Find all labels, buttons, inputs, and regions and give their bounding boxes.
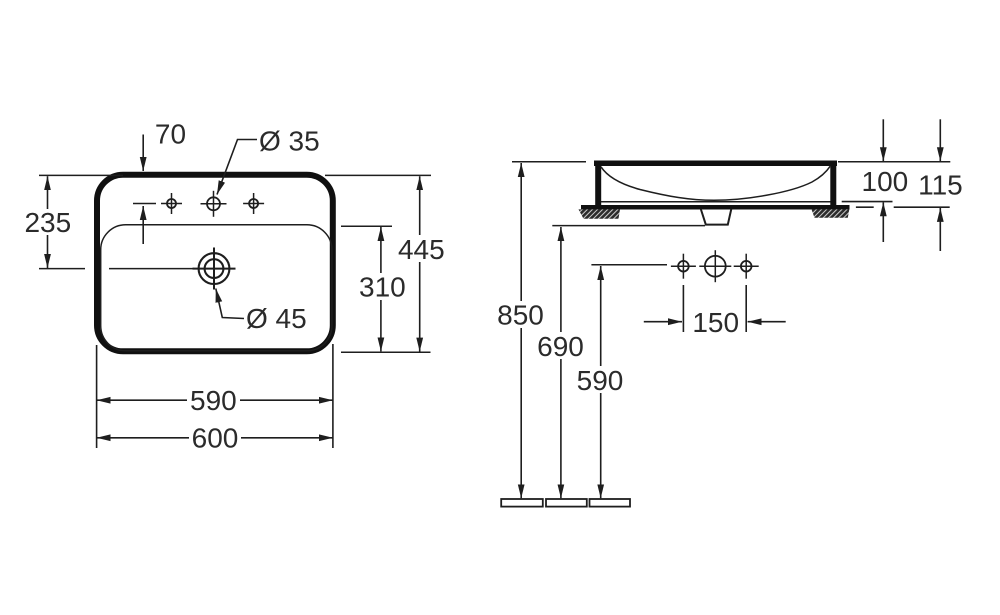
svg-text:Ø 45: Ø 45 bbox=[246, 303, 307, 334]
svg-text:445: 445 bbox=[398, 234, 445, 265]
svg-text:600: 600 bbox=[192, 422, 239, 453]
svg-text:Ø 35: Ø 35 bbox=[259, 126, 320, 157]
svg-text:100: 100 bbox=[862, 166, 909, 197]
svg-text:235: 235 bbox=[24, 207, 71, 238]
svg-text:150: 150 bbox=[692, 307, 739, 338]
svg-text:590: 590 bbox=[577, 365, 624, 396]
svg-text:310: 310 bbox=[359, 272, 406, 303]
svg-text:850: 850 bbox=[497, 300, 544, 331]
svg-text:590: 590 bbox=[190, 385, 237, 416]
svg-text:70: 70 bbox=[155, 119, 186, 150]
svg-text:690: 690 bbox=[537, 331, 584, 362]
svg-text:115: 115 bbox=[918, 170, 963, 201]
